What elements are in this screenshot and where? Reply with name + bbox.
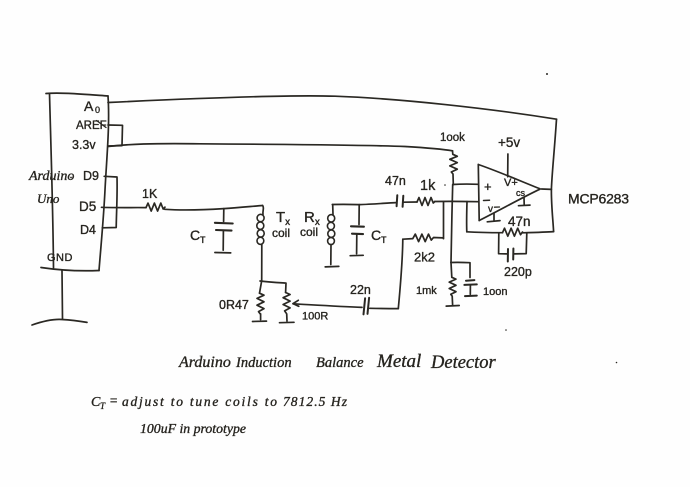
op-amp U1 MCP6283 triangle xyxy=(478,165,540,221)
svg-text:C: C xyxy=(371,227,381,243)
op-amp - input mark xyxy=(484,200,500,215)
capacitor CT (Tx side) xyxy=(215,209,233,253)
capacitor 100n xyxy=(464,280,476,296)
svg-text:220p: 220p xyxy=(504,265,532,279)
svg-text:D4: D4 xyxy=(80,223,96,237)
svg-text:Induction: Induction xyxy=(235,355,292,371)
resistor 1k (input) xyxy=(417,198,478,206)
svg-text:adjust to tune coils to: adjust to tune coils to xyxy=(122,394,277,409)
Arduino board outline xyxy=(41,93,109,271)
svg-text:A: A xyxy=(84,98,94,114)
pin label AREF xyxy=(76,120,107,132)
svg-text:GND: GND xyxy=(47,252,73,264)
stray dot 2 xyxy=(505,329,507,331)
wire 1K to Tx node xyxy=(165,206,263,211)
svg-text:1K: 1K xyxy=(142,187,158,201)
svg-text:Detector: Detector xyxy=(430,353,497,373)
svg-text:+5v: +5v xyxy=(498,135,520,150)
title text xyxy=(178,351,497,373)
svg-text:100R: 100R xyxy=(302,311,328,323)
wire Rx node xyxy=(332,203,396,205)
svg-text:T: T xyxy=(381,235,387,245)
resistor 2k2 xyxy=(403,202,444,241)
board label Arduino Uno xyxy=(28,169,74,206)
op-amp V+ pin wire xyxy=(507,154,509,177)
svg-text:Uno: Uno xyxy=(37,191,60,206)
note line 1 xyxy=(91,393,348,411)
stray dot 1 xyxy=(546,73,548,75)
svg-text:1oon: 1oon xyxy=(483,286,507,298)
capacitor CT (Rx side) xyxy=(350,205,364,256)
svg-text:1mk: 1mk xyxy=(416,285,437,297)
svg-text:T: T xyxy=(100,401,106,411)
svg-text:coil: coil xyxy=(272,226,290,240)
svg-text:AREF: AREF xyxy=(76,120,107,132)
resistor 0R47 xyxy=(253,293,267,321)
svg-text:=: = xyxy=(109,393,118,408)
svg-text:100uF in prototype: 100uF in prototype xyxy=(140,421,246,436)
svg-text:C: C xyxy=(190,227,200,243)
wire Tx bottom to 100R xyxy=(260,281,286,293)
wire D5 xyxy=(102,206,147,208)
svg-text:Arduino: Arduino xyxy=(178,354,231,371)
svg-text:D5: D5 xyxy=(79,199,96,214)
Rx coil xyxy=(325,205,339,267)
wire + input xyxy=(453,183,479,185)
resistor 1K xyxy=(146,203,165,211)
resistor 1mk lower bias xyxy=(446,263,459,307)
svg-text:Balance: Balance xyxy=(316,355,364,371)
svg-text:1ook: 1ook xyxy=(440,132,465,144)
svg-text:v: v xyxy=(488,204,493,215)
potentiometer 100R xyxy=(280,293,299,323)
Arduino GND wire xyxy=(61,271,64,319)
wire right vertical (output net down) xyxy=(551,119,556,231)
resistor 100k upper bias xyxy=(450,151,458,185)
svg-text:47n: 47n xyxy=(508,214,531,229)
wire 22n up to 2k2 xyxy=(398,239,403,308)
op-amp V- ground tick xyxy=(487,214,500,222)
svg-text:coil: coil xyxy=(300,225,318,239)
capacitor 47n (input) xyxy=(397,195,417,207)
svg-text:7812.5 Hz: 7812.5 Hz xyxy=(283,394,348,409)
wire 3.3v to 100k bias xyxy=(108,144,453,151)
svg-text:Metal: Metal xyxy=(376,351,421,372)
svg-text:0: 0 xyxy=(95,105,100,115)
wire bias vertical down xyxy=(451,185,453,263)
wire bias corner to 100n xyxy=(451,262,470,277)
pin label A0 xyxy=(84,98,100,115)
stray dot 5 xyxy=(70,177,72,179)
svg-text:2k2: 2k2 xyxy=(414,250,435,265)
svg-text:1k: 1k xyxy=(420,178,436,194)
wire A0 to op-amp output net xyxy=(108,96,557,119)
stray dot 3 xyxy=(616,362,618,364)
resistor 47n feedback xyxy=(503,228,523,236)
feedback wire 47n to output xyxy=(523,232,554,233)
wire op-amp output stub xyxy=(542,188,552,190)
ground symbol (board) xyxy=(32,319,87,325)
Tx coil xyxy=(257,206,264,281)
svg-text:47n: 47n xyxy=(385,174,406,188)
svg-text:cs: cs xyxy=(516,188,526,198)
capacitor 220p loop xyxy=(499,233,527,262)
svg-text:D9: D9 xyxy=(83,169,99,183)
svg-text:MCP6283: MCP6283 xyxy=(568,191,629,207)
stray dot 4 xyxy=(444,184,446,186)
op-amp CS ground tick xyxy=(519,198,531,206)
svg-text:T: T xyxy=(200,235,206,245)
svg-text:+: + xyxy=(484,179,492,194)
feedback wire to 47n xyxy=(467,231,503,234)
svg-text:3.3v: 3.3v xyxy=(72,138,96,152)
wire Tx bottom to 0R47 xyxy=(260,281,262,294)
capacitor 22n xyxy=(364,298,399,315)
svg-text:Arduino: Arduino xyxy=(28,169,74,184)
svg-text:22n: 22n xyxy=(350,283,371,297)
svg-text:0R47: 0R47 xyxy=(219,298,249,312)
wire AREF jumper to 3.3v xyxy=(108,125,123,146)
wire D9-D4 jumper xyxy=(102,176,117,228)
wire wiper to 22n xyxy=(293,304,362,308)
feedback left vertical wire xyxy=(466,202,468,232)
